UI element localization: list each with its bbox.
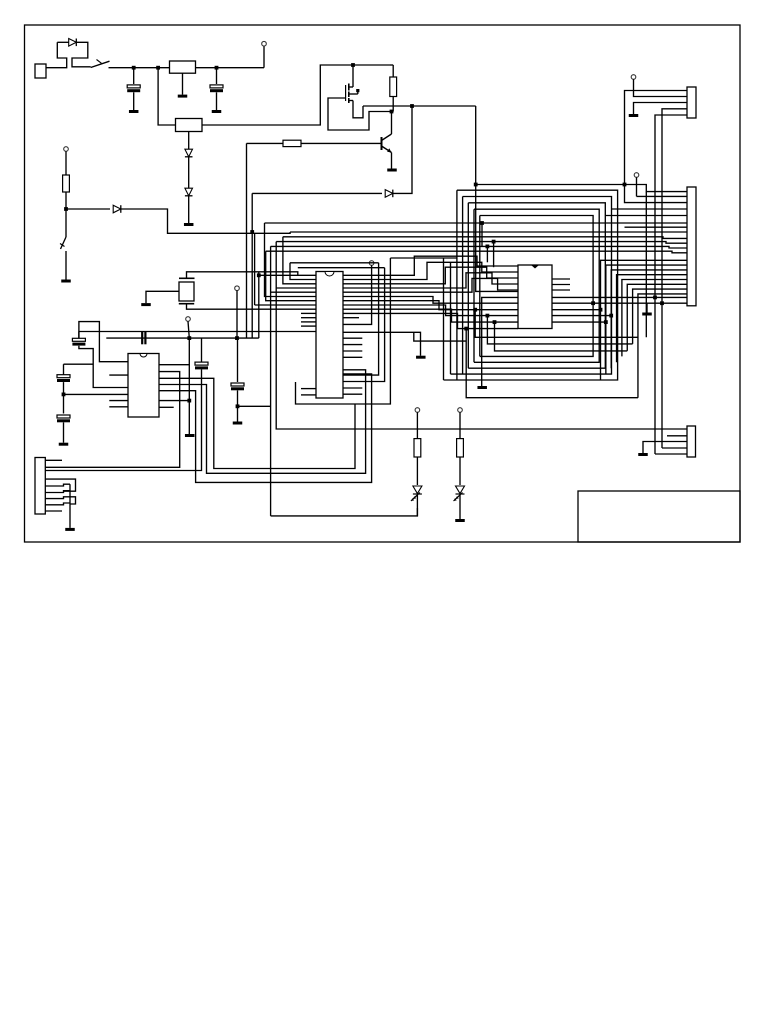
bus L6: [266, 251, 687, 253]
wire C6 bottom: [79, 346, 128, 388]
wire to VCC terminal: [263, 46, 265, 68]
nest rect 4: [474, 209, 599, 362]
wire to U4 pin1: [259, 274, 316, 276]
diode D6: [385, 190, 393, 198]
resistor R1: [63, 175, 70, 192]
stub J4 pin8: [45, 510, 62, 512]
wire loop top right: [72, 42, 91, 67]
wire U4 lpin6: [265, 223, 317, 297]
title block: [578, 491, 740, 542]
wire J3 pin 297: [655, 296, 687, 298]
wire vert 254 to pin8: [254, 233, 256, 305]
junction n3: [215, 66, 219, 70]
junction n16: [236, 404, 240, 408]
wire loop top left: [57, 41, 68, 43]
wire T5 down: [236, 291, 238, 339]
terminal T9: [415, 408, 420, 413]
ground S2: [61, 280, 71, 283]
junction n13: [187, 336, 191, 340]
wire U5 rpin 322: [552, 321, 606, 323]
junction n14: [62, 393, 66, 397]
ground C8: [59, 443, 69, 446]
led LED1: [413, 486, 422, 494]
wire junction to D5: [66, 208, 110, 210]
wire L9 dive: [343, 268, 385, 382]
wire Y1 bottom rail: [187, 304, 317, 310]
ground U5: [477, 386, 487, 389]
stair 2: [606, 265, 687, 374]
wire D5 to bus: [121, 209, 290, 233]
stair 6: [627, 284, 687, 351]
wire gnd vert 189: [188, 365, 190, 434]
connector J5: [687, 426, 696, 457]
wire J1 pin1 to loop: [46, 42, 67, 67]
ground Y1: [141, 303, 151, 306]
wire J2 pin3: [634, 103, 688, 115]
wire R1 to junction: [65, 192, 67, 209]
resistor R2: [390, 77, 397, 97]
wire U3 rpin2 to J4 pin2: [45, 372, 179, 468]
ic U4: [316, 272, 343, 399]
wire L8 dive: [343, 263, 379, 375]
wire U5 rpin 297: [552, 296, 655, 298]
capacitor C5: [141, 332, 143, 344]
wire J3 pin 209: [612, 208, 688, 210]
bus M2: [343, 301, 518, 310]
wire T9 to R4: [416, 412, 418, 438]
wire U4 bottom wrap: [296, 258, 391, 404]
ground J4: [65, 528, 75, 531]
stub U4 bl1: [301, 388, 316, 390]
wire T6 down: [188, 321, 189, 338]
stub U4 r6: [343, 393, 362, 395]
terminal T7: [369, 261, 374, 266]
ground D3: [184, 223, 194, 226]
junction n11: [257, 273, 261, 277]
diode D1: [69, 39, 77, 47]
wire Q1 source: [353, 101, 363, 118]
wire D6 to n6: [393, 106, 412, 193]
wire corner 341 line: [414, 332, 466, 341]
wire D3 to ground: [188, 196, 190, 223]
wire U3 rpin5 bottom bus outer: [159, 374, 372, 483]
wire U4 lpin5: [271, 291, 316, 293]
nest rect 3: [468, 203, 605, 368]
wire L5 feed: [486, 246, 488, 262]
ic U5: [518, 265, 552, 329]
ground n15: [185, 434, 195, 437]
junction n5: [64, 207, 68, 211]
wire U2 out to mosfet rail: [202, 65, 390, 125]
wire U2 bottom to D2: [188, 132, 190, 150]
capacitor C8: [57, 415, 70, 418]
rail 338: [106, 337, 258, 339]
wire C7 tap: [64, 393, 129, 395]
stub U5 r2: [552, 284, 570, 286]
wire U5 rpin 303: [552, 302, 662, 304]
junction n9: [474, 183, 478, 187]
stair 4: [617, 275, 687, 363]
wire U4 lpin2: [290, 263, 316, 280]
bus L8: [290, 262, 379, 264]
mosfet body dot: [356, 89, 359, 92]
crystal Y1: [179, 282, 194, 301]
wire J4 jog nest: [45, 479, 75, 491]
stub U3 left low1: [109, 400, 128, 402]
wire J2 pin4: [662, 109, 687, 448]
bus L1: [265, 222, 688, 224]
junction n2: [156, 66, 160, 70]
wire U3 rpin6: [159, 400, 189, 402]
wire R3 left: [247, 142, 284, 144]
stub U4 r317: [343, 317, 359, 319]
diode D3: [185, 188, 193, 196]
wire source feed to IC2: [476, 106, 518, 291]
ground U4r: [416, 356, 426, 359]
wire U4 lpin3: [283, 237, 316, 284]
wire J4 gnd vertical: [69, 484, 71, 528]
border frame: [25, 25, 741, 542]
terminal T4: [631, 75, 636, 80]
junction n6: [410, 104, 414, 108]
junction n8: [250, 230, 254, 234]
wire conn J2 pin1 vertical: [625, 91, 688, 203]
capacitor C2: [216, 68, 218, 84]
wire LED return bottom: [271, 508, 418, 516]
wire T10 to R5: [459, 412, 461, 438]
junction n15: [187, 399, 191, 403]
bus L2: [290, 231, 687, 233]
junction n7: [390, 110, 394, 114]
terminal T2: [64, 147, 69, 152]
wire T8 down: [636, 177, 638, 196]
ground C10: [233, 422, 243, 425]
wire J5 pin3 gnd: [643, 442, 687, 454]
diode D2: [185, 149, 193, 157]
wire T7 to U4 pin: [343, 265, 372, 324]
bus L7: [390, 257, 457, 259]
wire U4 lpin8: [255, 304, 316, 306]
wire R3 vertical: [246, 143, 248, 338]
terminal T5: [235, 286, 240, 291]
wire 466 down to 397 line: [466, 329, 638, 398]
bus L9: [298, 267, 385, 269]
capacitor C10: [237, 338, 239, 382]
wire U4 lpin4: [276, 287, 316, 289]
wire R5 to LED2: [459, 457, 461, 485]
stub U3 left low2: [109, 406, 128, 408]
wire J3 pin 303: [662, 302, 687, 304]
stair 1: [601, 260, 688, 380]
wrap w2: [487, 316, 632, 344]
wire P0: [343, 256, 518, 275]
ground mid right: [646, 303, 648, 312]
connector J3: [687, 187, 696, 306]
regulator U1: [170, 61, 196, 73]
terminal VCC: [262, 41, 267, 46]
stub U3 right low: [159, 406, 174, 408]
wire J5 pin5: [655, 453, 687, 455]
connector J1: [35, 64, 46, 78]
wire LED2 down: [459, 495, 461, 520]
stub J4 pin1: [45, 459, 62, 461]
capacitor C1: [133, 68, 135, 84]
wire P4: [343, 278, 518, 292]
capacitor C7 chain: [64, 363, 94, 365]
stub U5 r3: [552, 289, 570, 291]
wire vert 270 long: [270, 246, 272, 516]
bus M3: [343, 305, 518, 316]
switch S1: [91, 61, 110, 67]
stub U4 l11: [301, 321, 316, 323]
nest rect 5: [480, 216, 593, 357]
wire U3 rpin1: [159, 338, 189, 365]
diode D6 return wire: [252, 192, 382, 194]
wire net184: [476, 185, 687, 192]
wire R4 to LED1: [416, 457, 418, 485]
wire U4 lpin7: [266, 251, 316, 301]
nest rect 1: [444, 190, 618, 380]
stair 8: [638, 294, 687, 398]
wire Y1 case ground: [146, 291, 179, 303]
stub U4 l9: [301, 312, 316, 314]
wire LED1 down: [416, 495, 418, 516]
resistor R3: [283, 140, 301, 146]
stub U4 l12: [301, 325, 316, 327]
wire crystal net vertical: [258, 272, 260, 338]
wire J5 pin4: [662, 447, 687, 449]
connector J4: [35, 458, 45, 515]
ground J5: [638, 453, 648, 456]
rail 331 capA to U4: [78, 332, 80, 339]
wire U5 rpin 310: [552, 309, 601, 311]
resistor R4: [414, 439, 421, 457]
resistor R5: [457, 439, 464, 457]
ground LED2: [455, 519, 465, 522]
wire P2: [343, 267, 518, 284]
wire base R3: [301, 142, 382, 144]
wire U3 rpin4 bottom bus mid: [159, 370, 366, 474]
wire D6 left vertical: [251, 193, 253, 338]
ground C2: [212, 110, 222, 113]
wire n2 to U2: [158, 68, 175, 125]
ground Q2: [387, 169, 397, 172]
wrap w3: [495, 322, 628, 351]
stair 3: [611, 270, 687, 368]
bus L1b: [625, 226, 688, 228]
terminal T6: [186, 317, 191, 322]
diode D5: [113, 205, 121, 213]
stub J5 pin2: [667, 435, 687, 437]
wire J2 pin2: [634, 79, 688, 96]
stub U5 r1: [552, 278, 570, 280]
wire U3 rpin3 bottom bus inner: [159, 378, 355, 468]
capacitor C9: [201, 338, 203, 362]
stub U4 l10: [301, 317, 316, 319]
capacitor C6: [79, 322, 128, 362]
wire L4 feed: [493, 242, 495, 268]
stair 5: [622, 280, 687, 357]
wire vert 276 to bottom connector: [276, 242, 687, 429]
junction n12: [235, 336, 239, 340]
wire J2 pin5: [655, 115, 687, 454]
ic U3: [128, 354, 159, 418]
led LED2: [456, 486, 465, 494]
wire U5 rpin 316: [552, 315, 611, 317]
junction n4: [351, 63, 355, 67]
wrap w1: [475, 310, 638, 338]
wire D2 to D3: [188, 157, 190, 188]
junction n10: [623, 183, 627, 187]
wire J3 pin 196: [637, 195, 688, 197]
bus M5: [343, 313, 518, 328]
wire T2 to R1: [65, 151, 67, 175]
wire Y1 top: [187, 272, 298, 279]
wire S2 to ground: [65, 251, 67, 280]
bus L5: [271, 246, 687, 248]
wire net184 drop: [645, 192, 647, 338]
junction n1: [132, 66, 136, 70]
wire P1: [343, 262, 518, 279]
nest rect 2: [451, 197, 612, 375]
stair 7: [633, 289, 687, 344]
wire n16 LED return: [238, 405, 271, 407]
transistor Q2: [391, 112, 393, 135]
wire U4 gnd right: [343, 332, 421, 355]
stub U4 r1: [343, 337, 362, 339]
wire U1 out rail: [196, 67, 265, 69]
mosfet Q1: [352, 65, 354, 87]
wire gate loop: [328, 98, 393, 130]
wire source rail: [363, 105, 476, 107]
bus M1: [343, 297, 518, 304]
wire outer left vert A: [443, 258, 445, 380]
bus L4: [276, 242, 687, 244]
ground U1: [182, 73, 184, 94]
stub U4 r4: [343, 356, 362, 358]
stub U4 r5: [343, 387, 362, 389]
wire J3 pin 215: [605, 215, 687, 217]
stub U4 r3: [343, 350, 362, 352]
wire C9 down to J4 pin3: [45, 370, 201, 471]
ground J2: [629, 114, 639, 117]
wire switch to rail: [109, 67, 170, 69]
wire U5 gnd pin: [482, 297, 518, 386]
connector J2: [687, 87, 696, 118]
stub U4 bl2: [301, 394, 316, 396]
bus L3: [283, 237, 687, 239]
bus M4: [343, 309, 518, 322]
wire P3: [343, 273, 518, 288]
regulator U2: [176, 119, 203, 132]
terminal T8: [634, 173, 639, 178]
junction n17: [464, 327, 468, 331]
switch S2: [65, 209, 67, 237]
stub U3 pin2: [109, 374, 128, 376]
terminal T10: [458, 408, 463, 413]
stub U4 r2: [343, 344, 362, 346]
wire outer left vert B: [450, 262, 452, 374]
ground C1: [129, 110, 139, 113]
